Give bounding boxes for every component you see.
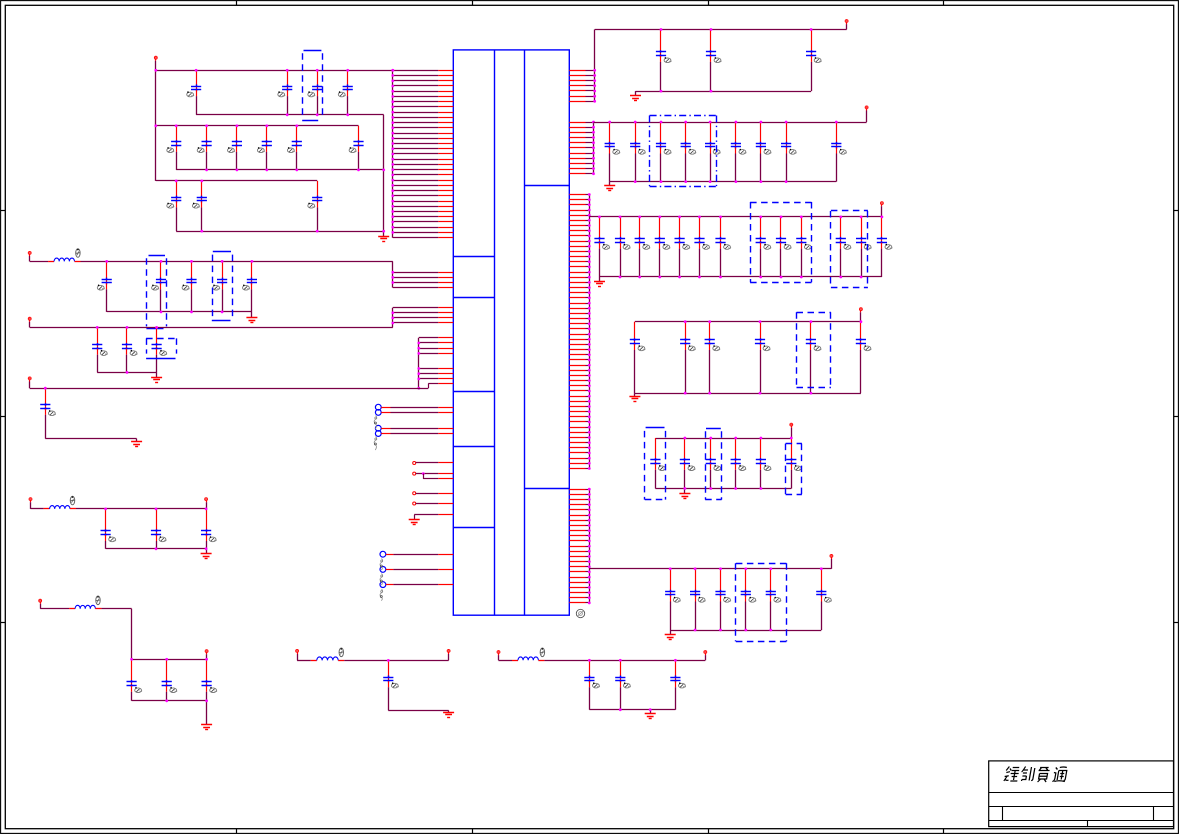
pin wire with open pin circle [413,502,416,505]
power pin P14 [865,106,868,122]
capacitor C29 [383,660,398,710]
junction dots G1 bottom [286,113,349,116]
capacitor C69 [786,438,801,489]
junction dots G4 bottom [160,311,224,314]
pin wire [569,132,585,134]
wire [635,393,861,395]
pin wire with open pin circle [413,462,416,465]
wire [297,660,311,662]
pin wire [569,313,585,315]
pin wire [569,421,585,423]
wire [40,608,69,610]
pin wire [569,530,585,532]
node VCC5 rail [635,321,861,323]
dashed group box B9 [645,428,666,500]
power pin P7 [39,599,42,608]
pin wire [569,556,585,558]
wire [30,388,429,390]
capacitor C39 [681,122,696,182]
pin wire [569,318,585,320]
node VCC1 rail [156,70,393,72]
pin wire [569,80,585,82]
pin wire [569,577,585,579]
IC right pin group R5 bus [589,489,591,603]
pin wire [569,127,585,129]
pin wire [569,375,585,377]
pin wire [393,75,439,77]
pin wire [569,256,585,258]
pin wire [569,447,585,449]
net label [374,437,377,451]
wire [176,231,384,233]
capacitor C70 [665,569,680,630]
pin wire [569,406,585,408]
wire [107,311,252,313]
pin wire [393,237,439,239]
wire [670,630,821,632]
node VCC3 rail [594,122,867,124]
pin wire [393,312,439,314]
pin wire [569,215,585,217]
capacitor C21 [152,327,167,372]
dashed group box B4 [146,338,176,358]
node VCC4 rail [589,216,882,218]
junction dots TR4 bottom [684,392,813,395]
IC U1 refdes label [576,609,584,617]
power pin P16 [860,308,863,322]
power pin P8 [205,650,208,660]
capacitor C25 [201,509,216,549]
pin wire [393,169,439,171]
wire [544,660,705,662]
junction dots BR rail [669,567,823,570]
pin wire [419,348,439,350]
junction dots G2 rail [154,124,298,127]
ferrite bead label [339,648,343,657]
pin wire [393,180,439,182]
pin wire [569,122,585,124]
IC left pin group D bus [418,338,420,388]
wire [30,327,393,329]
pin wire [569,592,585,594]
pin wire [393,127,439,129]
pin wire [569,509,585,511]
node VCC1 rail 2 [156,125,359,127]
pin wire with no-connect marker [380,567,386,573]
capacitor C71 [690,569,705,630]
wire [635,91,637,96]
pin wire [569,334,585,336]
pin wire [569,199,585,201]
pin wire with open pin circle [413,492,416,495]
ferrite bead FB5 [512,657,544,661]
pin wire [569,251,585,253]
pin wire [569,525,585,527]
net label [380,574,383,586]
dashed group box B3 [212,252,233,321]
capacitor C16 [182,261,197,312]
title text company name [1004,767,1068,783]
wire [81,261,393,263]
capacitor C3 [308,70,322,115]
IC left pin group F [413,462,454,520]
pin wire [569,349,585,351]
power pin P2 [28,252,31,262]
pin wire [393,307,439,309]
wire [383,115,385,237]
pin wire [569,468,585,470]
junction dots G4 rail [105,260,253,263]
pin wire [569,303,585,305]
capacitor C6 [197,126,211,170]
power pin P13 [845,20,848,30]
wire [45,438,136,440]
pin wire [569,282,585,284]
ferrite bead label [96,596,100,605]
wire [599,277,601,281]
pin wire [569,582,585,584]
pin wire jog [428,384,430,389]
ground [409,520,420,525]
power pin P11 [497,651,500,661]
junction dots TR2 bottom [634,180,788,183]
power pin P3 [28,317,31,327]
pin wire [393,138,439,140]
capacitor C32 [670,660,685,709]
capacitor C40 [705,122,720,182]
capacitor C28 [202,659,217,701]
capacitor C33 [656,30,671,92]
capacitor C10 [349,126,364,170]
ground [594,282,605,287]
power pin P5 [29,498,32,509]
capacitor C61 [755,322,770,393]
pin wire [393,117,439,119]
pin wire [569,90,585,92]
capacitor C57 [877,217,892,277]
pin wire [569,566,585,568]
pin wire [393,70,439,72]
node VCC7 rail [589,568,831,570]
wire [176,169,384,171]
pin wire with no-connect marker [375,431,381,437]
pin wire [569,535,585,537]
capacitor C62 [806,322,821,393]
capacitor C67 [731,438,746,489]
pin wire [393,159,439,161]
capacitor C59 [680,322,695,393]
pin wire [393,143,439,145]
pin wire [569,266,585,268]
pin wire [569,561,585,563]
capacitor C73 [741,569,756,630]
IC U1 body [453,50,569,615]
pin wire [569,385,585,387]
ferrite bead label [540,648,544,657]
dashed group box B11 [786,444,802,495]
pin wire [569,354,585,356]
junction dots MR bottom [684,487,763,490]
pin wire [393,174,439,176]
capacitor C17 [213,261,227,312]
pin wire [393,106,439,108]
capacitor C27 [162,659,177,701]
junction dots G10 bottom [619,708,652,711]
pin wire [569,277,585,279]
ground [443,713,454,718]
junction dots BR bottom [694,629,773,632]
capacitor C11 [167,181,182,231]
wire [388,710,448,712]
capacitor C66 [706,438,721,489]
node VCC1 rail 3 [156,180,317,182]
dashed group box B1 [302,51,322,121]
junction dots G10 rail [588,659,677,662]
pin wire [393,80,439,82]
capacitor C47 [635,217,650,277]
junction dots G7 rail [104,508,207,511]
pin wire [569,515,585,517]
ferrite bead FB2 [44,506,76,509]
wire [132,659,207,661]
wire [634,393,636,396]
pin wire [569,137,585,139]
pin wire [569,75,585,77]
pin wire [569,246,585,248]
pin wire [419,378,439,380]
pin wire [569,168,585,170]
ground [131,442,142,447]
pin wire [393,221,439,223]
dashed group box B5 [650,116,717,187]
pin wire [569,241,585,243]
capacitor C18 [243,261,258,312]
pin wire [419,368,439,370]
capacitor C60 [705,322,720,393]
pin wire [569,390,585,392]
ground [201,725,212,730]
IC left pin group A bus [392,70,394,237]
junction dots G5 rail [96,326,158,329]
pin wire [569,292,585,294]
ferrite bead FB4 [311,657,344,661]
pin wire [419,342,439,344]
wire [610,181,837,183]
pin wire [569,101,585,103]
ground [679,494,690,499]
pin wire [569,401,585,403]
power pin P1 [154,56,157,70]
pin wire [393,277,439,279]
pin wire [569,153,585,155]
wire [655,488,791,490]
junction dot G9 [387,659,390,662]
pin wire [393,190,439,192]
wire left bus G1-G3 [155,70,157,181]
pin wire [393,232,439,234]
wire [499,660,513,662]
ground [201,554,212,559]
pin wire [569,494,585,496]
wire [196,114,384,116]
pin wire [569,230,585,232]
pin wire [419,337,439,339]
power pin P17 [790,423,793,438]
junction dots G5 bottom [126,371,129,374]
junction dots G3 bottom [200,230,385,233]
ground [630,96,641,101]
capacitor C20 [122,327,137,372]
ferrite bead label [76,249,80,258]
pin wire [569,380,585,382]
pin wire [419,353,439,355]
pin wire [569,411,585,413]
wire [136,439,138,442]
capacitor C44 [831,122,846,182]
wire [97,372,156,374]
pin wire [569,452,585,454]
pin wire [569,328,585,330]
wire [31,508,44,510]
pin wire [419,373,439,375]
pin wire [393,317,439,319]
pin wire [569,297,585,299]
wire [132,700,207,702]
ground [604,186,615,191]
pin wire [569,442,585,444]
pin wire [569,220,585,222]
pin wire [569,235,585,237]
IC left pin group B bus [392,261,394,287]
capacitor C37 [630,122,645,182]
wire [101,608,131,610]
pin wire [569,551,585,553]
pin wire [393,206,439,208]
pin wire [569,365,585,367]
junction dots TR4 rail [684,320,863,323]
capacitor C2 [278,70,292,115]
capacitor C54 [796,217,811,277]
pin wire [393,133,439,135]
pin wire with no-connect marker [375,425,381,431]
pin wire [569,225,585,227]
junction dots G1 rail [154,69,394,72]
wire [206,701,208,725]
net label [374,416,377,430]
IC left pin group E [374,404,453,450]
junction dots G8 bottom [165,699,208,702]
pin wire [569,359,585,361]
pin wire [569,463,585,465]
pin wire [569,158,585,160]
ground [629,397,640,402]
pin wire [569,272,585,274]
wire [251,312,253,318]
power pin P10 [447,650,450,661]
wire [344,660,448,662]
pin wire [569,432,585,434]
capacitor C53 [776,217,791,277]
wire [106,548,207,550]
pin wire [569,597,585,599]
capacitor C30 [584,660,599,709]
capacitor C1 [187,70,201,115]
IC left pin group G [380,551,453,600]
pin wire [393,153,439,155]
capacitor C55 [836,217,851,277]
capacitor C41 [731,122,746,182]
capacitor C4 [338,70,352,115]
capacitor C12 [192,181,206,231]
pin wire [569,344,585,346]
power pin P9 [296,650,299,661]
title block [989,761,1174,827]
junction dots TR2 rail [608,121,837,124]
capacitor C35 [806,30,821,92]
capacitor C13 [308,181,322,231]
pin wire [569,370,585,372]
pin wire [569,194,585,196]
capacitor C51 [715,217,730,277]
ferrite bead FB1 [48,258,80,261]
pin wire [569,520,585,522]
net label [380,559,383,571]
capacitor C56 [856,217,871,277]
IC right pin group R2 bus [593,122,595,174]
wire [609,182,611,186]
pin wire [393,272,439,274]
pin wire [569,85,585,87]
ground [151,378,162,383]
pin wire [569,504,585,506]
capacitor C34 [706,30,721,92]
pin wire to ground [438,514,453,516]
capacitor C68 [756,438,771,489]
pin wire [393,85,439,87]
capacitor C7 [228,126,243,170]
power pin P4 [28,377,31,388]
pin wire [393,227,439,229]
power pin P18 [830,555,833,569]
pin wire [569,147,585,149]
power pin P6 [205,498,208,509]
wire [156,372,158,377]
pin wire [393,322,439,324]
pin wire [569,204,585,206]
pin wire [569,458,585,460]
pin wire [393,211,439,213]
junction dots G8 rail [130,658,208,661]
capacitor C58 [630,322,645,393]
capacitor C42 [756,122,771,182]
pin wire with open pin circle and jog [413,472,416,475]
dashed group box B6 [750,202,811,283]
ground [665,635,676,640]
pin wire [569,396,585,398]
wire [448,710,450,712]
capacitor C22 [40,388,55,438]
ferrite bead FB3 [69,605,101,608]
junction dots TR1 bottom [660,90,713,93]
pin wire [393,201,439,203]
pin wire [569,142,585,144]
capacitor C52 [756,217,771,277]
pin wire [569,339,585,341]
node VCC2 rail [595,29,847,31]
pin wire [569,587,585,589]
dashed group box B8 [797,312,831,387]
pin wire [569,437,585,439]
